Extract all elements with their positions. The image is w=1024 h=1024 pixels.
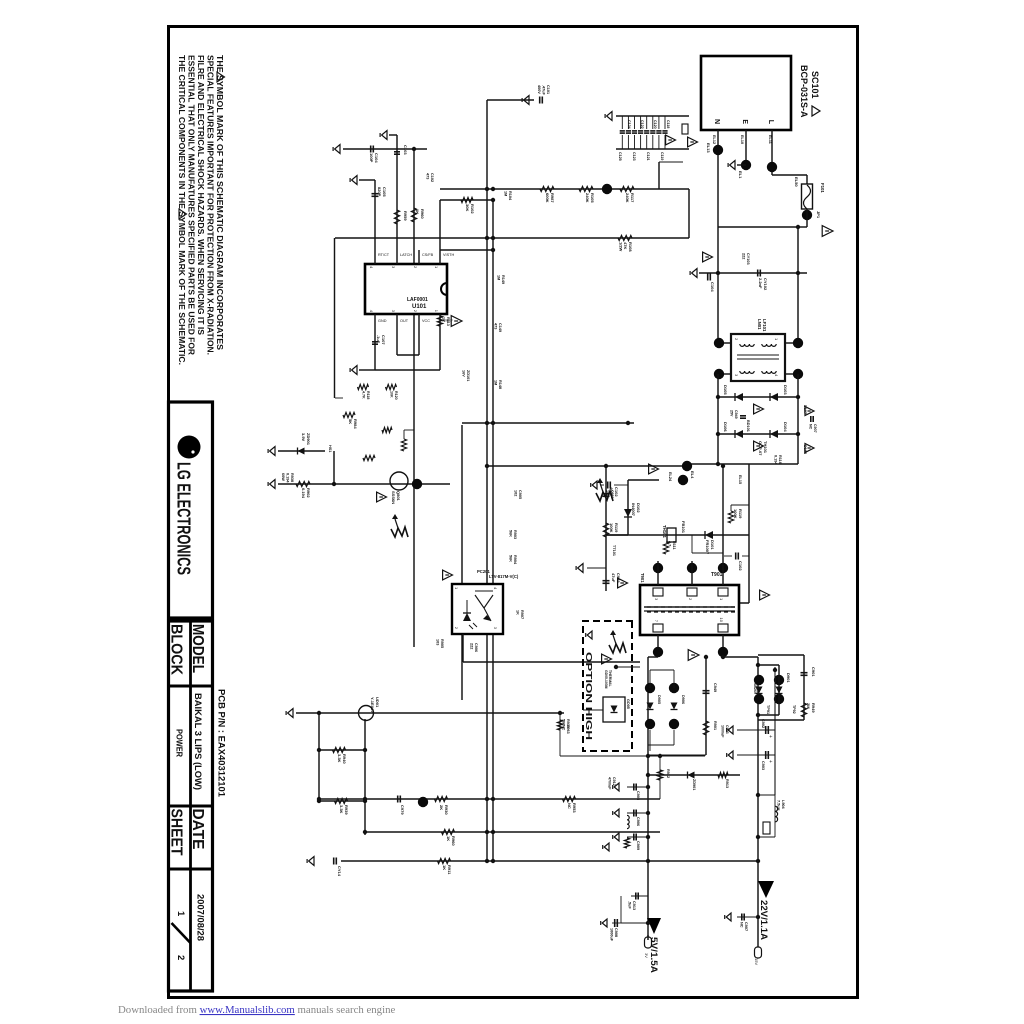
svg-text:C125: C125 [618, 152, 622, 161]
svg-text:D107: D107 [803, 405, 807, 414]
svg-text:C902: C902 [761, 719, 765, 728]
svg-text:C123: C123 [632, 152, 636, 161]
svg-text:R963: R963 [566, 725, 570, 734]
svg-text:Y-1EX27: Y-1EX27 [370, 697, 375, 714]
svg-text:E: E [741, 119, 748, 124]
svg-text:30K: 30K [465, 204, 470, 211]
svg-text:10K: 10K [390, 391, 394, 398]
svg-text:820P: 820P [377, 187, 382, 197]
svg-text:3.9V: 3.9V [301, 433, 306, 442]
svg-text:PC201: PC201 [477, 569, 490, 574]
svg-text:C101: C101 [546, 85, 550, 94]
svg-text:EL1: EL1 [738, 171, 743, 179]
svg-text:R104: R104 [508, 191, 512, 201]
svg-text:0.194: 0.194 [301, 488, 306, 499]
svg-text:BAIKAL 3 LIPS (LOW): BAIKAL 3 LIPS (LOW) [193, 693, 203, 790]
svg-text:1K: 1K [515, 610, 519, 615]
svg-text:102: 102 [513, 490, 517, 496]
svg-text:FILRE AND ELECTRICAL SHOCK HAZ: FILRE AND ELECTRICAL SHOCK HAZARDS. WHEN… [196, 55, 205, 336]
svg-text:EL10: EL10 [740, 135, 744, 144]
svg-text:473: 473 [425, 173, 429, 179]
svg-text:EL13: EL13 [706, 143, 711, 153]
svg-text:C121: C121 [646, 152, 650, 161]
svg-text:R149: R149 [501, 275, 505, 284]
svg-text:5K: 5K [348, 419, 353, 424]
svg-text:C906: C906 [474, 643, 478, 652]
svg-text:Downloaded from www.Manualslib: Downloaded from www.Manualslib.com manua… [118, 1004, 395, 1016]
svg-text:600K: 600K [545, 193, 550, 203]
svg-text:1M: 1M [493, 380, 497, 385]
svg-text:C908: C908 [614, 928, 618, 937]
svg-text:3.3K: 3.3K [339, 805, 344, 814]
svg-text:25V: 25V [730, 410, 734, 417]
svg-text:C124: C124 [627, 120, 631, 129]
svg-text:LATCH: LATCH [400, 253, 412, 257]
svg-text:DATE: DATE [189, 809, 206, 850]
svg-text:OCP-07: OCP-07 [758, 441, 763, 456]
svg-text:R111: R111 [672, 541, 676, 550]
svg-text:7.5uH: 7.5uH [776, 800, 780, 811]
svg-text:C979: C979 [400, 805, 405, 815]
svg-text:.47uF: .47uF [541, 85, 545, 96]
svg-text:R903: R903 [513, 530, 517, 539]
svg-text:1M: 1M [496, 275, 500, 280]
svg-text:103: 103 [435, 639, 439, 645]
svg-text:10: 10 [719, 618, 724, 623]
svg-text:EL24: EL24 [668, 472, 672, 482]
svg-text:D901: D901 [786, 673, 791, 683]
svg-text:SPECIAL FEATURES IMPORTANT FOR: SPECIAL FEATURES IMPORTANT FOR PROTECTIO… [206, 55, 215, 355]
svg-text:47uF: 47uF [611, 573, 616, 583]
svg-text:LN01: LN01 [757, 319, 762, 330]
svg-text:D104: D104 [783, 422, 788, 432]
svg-text:400V: 400V [537, 85, 541, 94]
svg-text:3V: 3V [644, 953, 649, 958]
svg-text:R913: R913 [725, 779, 729, 788]
svg-text:1000uF: 1000uF [609, 928, 613, 942]
svg-text:SHEET: SHEET [168, 809, 185, 856]
svg-text:+: + [767, 760, 773, 763]
svg-text:C120: C120 [653, 120, 657, 129]
svg-text:2K: 2K [439, 805, 444, 810]
svg-text:2M: 2M [806, 703, 811, 709]
svg-text:C122: C122 [640, 120, 644, 129]
svg-text:240K: 240K [585, 193, 590, 203]
svg-text:222: 222 [741, 253, 745, 259]
svg-text:C903: C903 [725, 725, 729, 734]
svg-text:D103: D103 [783, 385, 788, 395]
svg-text:L904: L904 [781, 800, 785, 810]
svg-text:L: L [767, 120, 774, 125]
svg-text:2: 2 [175, 955, 186, 960]
svg-text:R148: R148 [498, 380, 502, 389]
svg-text:D108: D108 [803, 445, 807, 454]
svg-text:EL50: EL50 [794, 177, 799, 187]
svg-text:NC: NC [809, 424, 813, 430]
svg-text:THE SYMBOL MARK OF THIS SCH: THE SYMBOL MARK OF THIS SCHEMATIC DIAGRA… [215, 55, 224, 351]
svg-text:HS1: HS1 [328, 445, 332, 452]
svg-text:R120: R120 [394, 391, 398, 400]
svg-text:C906: C906 [636, 817, 640, 826]
svg-text:4.7: 4.7 [667, 541, 671, 546]
svg-text:222: 222 [469, 643, 473, 649]
svg-text:CS/FB: CS/FB [422, 253, 434, 257]
svg-text:NC: NC [567, 803, 572, 809]
svg-text:EL11: EL11 [768, 135, 772, 144]
svg-text:EL12: EL12 [712, 135, 716, 144]
svg-text:R905: R905 [440, 639, 444, 648]
svg-text:RT/CT: RT/CT [378, 253, 390, 257]
svg-text:240K: 240K [625, 193, 630, 203]
svg-text:100K: 100K [733, 509, 738, 519]
svg-text:R938: R938 [290, 473, 294, 482]
svg-text:OPTION HIGH: OPTION HIGH [584, 652, 594, 740]
svg-text:1000uF: 1000uF [721, 725, 725, 738]
svg-text:D906: D906 [681, 695, 685, 704]
svg-text:2007/08/28: 2007/08/28 [196, 894, 206, 941]
svg-text:GD05-103M: GD05-103M [604, 670, 608, 689]
svg-text:SSS6N: SSS6N [391, 491, 396, 504]
svg-text:C905: C905 [518, 490, 522, 499]
svg-text:4: 4 [774, 374, 779, 377]
svg-text:1M: 1M [503, 191, 507, 196]
svg-text:EL4: EL4 [690, 471, 695, 479]
svg-text:+: + [767, 735, 773, 738]
svg-text:1K: 1K [415, 209, 420, 214]
svg-text:BCP-031S-A: BCP-031S-A [799, 65, 809, 118]
svg-text:R113: R113 [446, 317, 450, 326]
svg-text:FB101: FB101 [681, 521, 686, 534]
svg-text:IN4007: IN4007 [631, 503, 636, 517]
svg-text:16V: 16V [461, 370, 465, 377]
svg-text:.1uF: .1uF [376, 335, 381, 344]
svg-text:C907: C907 [813, 424, 817, 433]
svg-text:C949: C949 [713, 683, 717, 692]
svg-text:T901: T901 [711, 572, 723, 578]
svg-text:BLOCK: BLOCK [168, 624, 185, 675]
svg-text:LTV-817M-V(C): LTV-817M-V(C) [489, 574, 519, 579]
svg-text:473: 473 [493, 323, 497, 329]
svg-text:C102: C102 [738, 561, 743, 571]
svg-text:R959: R959 [403, 211, 408, 221]
svg-text:C118: C118 [666, 120, 670, 128]
svg-text:TH101: TH101 [662, 525, 667, 539]
svg-text:NC: NC [562, 725, 566, 731]
svg-text:C907: C907 [744, 922, 748, 931]
svg-text:60W: 60W [281, 473, 285, 481]
svg-text:0.194: 0.194 [285, 473, 289, 483]
svg-text:N: N [713, 119, 720, 124]
svg-text:R116: R116 [778, 455, 782, 464]
svg-text:LAF0001: LAF0001 [407, 297, 428, 303]
svg-text:CY14: CY14 [337, 866, 342, 877]
svg-text:C901: C901 [811, 667, 816, 677]
svg-text:R912: R912 [666, 769, 670, 778]
svg-text:LG ELECTRONICS: LG ELECTRONICS [174, 462, 195, 575]
svg-text:C104: C104 [710, 282, 715, 292]
svg-text:56K: 56K [508, 530, 512, 537]
svg-text:1: 1 [175, 911, 186, 917]
svg-text:100K: 100K [609, 523, 614, 533]
svg-text:C913: C913 [632, 901, 636, 910]
svg-text:C909: C909 [636, 841, 640, 850]
svg-text:THE CRITICAL COMPONENTS IN THE: THE CRITICAL COMPONENTS IN THE SYMBOL MA… [177, 55, 186, 365]
svg-text:5V/1.5A: 5V/1.5A [649, 937, 659, 974]
svg-text:R907: R907 [520, 610, 524, 619]
svg-text:EL15: EL15 [738, 475, 742, 484]
svg-text:ZD901: ZD901 [692, 779, 696, 790]
svg-text:SC101: SC101 [810, 71, 820, 99]
svg-text:PCB P/N : EAX40312101: PCB P/N : EAX40312101 [217, 689, 227, 797]
svg-text:3.3K: 3.3K [337, 754, 342, 763]
svg-text:D905: D905 [657, 695, 661, 704]
svg-text:C912: C912 [612, 777, 616, 786]
svg-text:D106: D106 [723, 422, 728, 432]
svg-text:2.2nF: 2.2nF [758, 278, 763, 289]
svg-text:102: 102 [606, 490, 610, 496]
svg-text:56K: 56K [508, 555, 512, 562]
svg-text:TP91: TP91 [766, 705, 770, 714]
svg-text:C903: C903 [761, 761, 765, 770]
svg-text:C102: C102 [430, 173, 434, 182]
svg-text:100P: 100P [369, 153, 374, 163]
svg-text:NC: NC [739, 922, 743, 928]
svg-text:GND: GND [378, 319, 387, 323]
svg-text:BD101: BD101 [746, 420, 750, 432]
svg-text:VCC: VCC [422, 319, 430, 323]
svg-text:JP1: JP1 [816, 211, 821, 219]
svg-text:R904: R904 [513, 555, 517, 565]
svg-text:SB260: SB260 [753, 683, 757, 694]
svg-text:R118: R118 [366, 391, 370, 399]
svg-text:1: 1 [774, 338, 779, 341]
svg-text:T901: T901 [640, 573, 645, 583]
svg-text:C949: C949 [734, 410, 738, 419]
svg-text:3: 3 [734, 374, 739, 377]
svg-text:C950: C950 [610, 490, 614, 499]
svg-text:TP92: TP92 [792, 705, 796, 714]
svg-text:ESSENTIAL THAT ONLY MANUFATURE: ESSENTIAL THAT ONLY MANUFATURES SPECIFIE… [187, 55, 196, 355]
svg-text:0.194: 0.194 [773, 455, 777, 465]
svg-text:2: 2 [734, 338, 739, 341]
svg-text:ZD101: ZD101 [466, 370, 470, 381]
svg-text:C103: C103 [403, 145, 408, 155]
svg-text:22V/1.1A: 22V/1.1A [759, 900, 769, 941]
svg-text:1K: 1K [442, 865, 447, 870]
svg-text:CY103: CY103 [746, 253, 750, 265]
svg-text:C149: C149 [498, 323, 502, 332]
svg-text:15V: 15V [754, 958, 759, 965]
svg-text:VISTH: VISTH [443, 253, 454, 257]
svg-text:D105: D105 [723, 385, 728, 395]
svg-text:1K: 1K [441, 317, 445, 322]
svg-text:1/2W: 1/2W [618, 242, 623, 252]
svg-text:OUT: OUT [400, 319, 409, 323]
svg-text:TT101: TT101 [612, 545, 616, 556]
svg-text:C119: C119 [660, 152, 664, 160]
svg-text:GD05: GD05 [626, 699, 630, 709]
svg-text:F101: F101 [820, 183, 825, 193]
svg-text:R901: R901 [713, 721, 717, 730]
svg-text:4700uF: 4700uF [608, 777, 612, 790]
svg-text:POWER: POWER [175, 729, 185, 757]
svg-text:.5uF: .5uF [627, 901, 631, 909]
svg-text:4.7K: 4.7K [362, 391, 366, 399]
svg-text:1K: 1K [446, 836, 451, 841]
svg-text:MODEL: MODEL [189, 624, 206, 673]
